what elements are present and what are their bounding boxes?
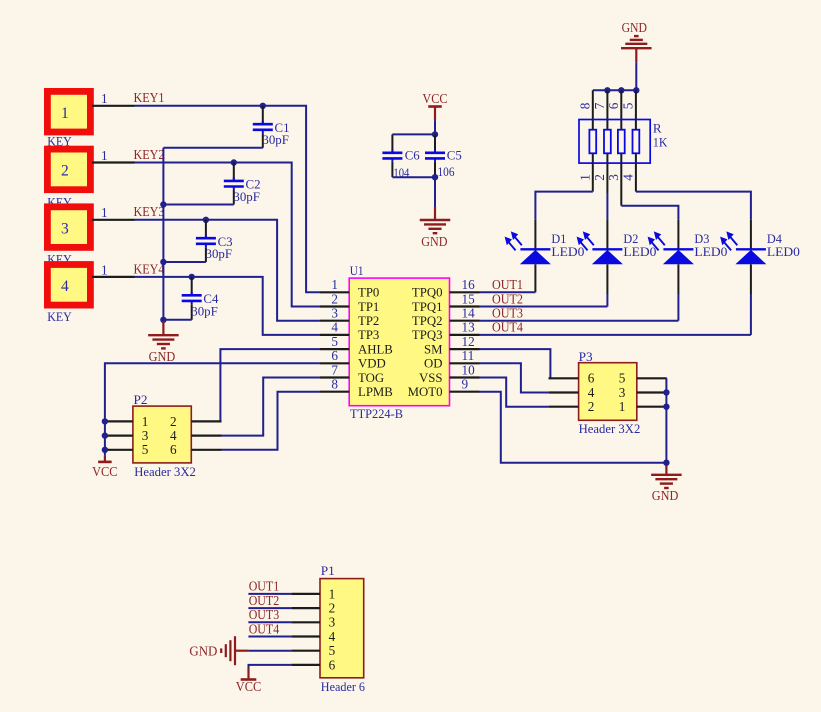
node P3 GND junction [663, 389, 669, 395]
power VCC (P2) [92, 456, 118, 479]
svg-text:TP0: TP0 [358, 286, 379, 300]
svg-text:5: 5 [620, 102, 635, 109]
wire C6 top branch [392, 133, 435, 135]
net label OUT2 (at U1) [492, 291, 523, 306]
svg-text:5: 5 [142, 442, 149, 457]
wire U1 AHLB pin5 to P2 pin2 [220, 349, 319, 421]
wire U1 TOG pin7 to P2 pin4 [222, 378, 320, 436]
net label OUT4 (P1) [249, 621, 280, 636]
svg-text:1: 1 [101, 205, 108, 220]
capacitor C6 104 [382, 134, 420, 180]
IC U1 TTP224-B [320, 263, 480, 421]
svg-text:GND: GND [189, 644, 217, 659]
wire net OUT2 (P1) [248, 607, 291, 609]
net label OUT1 (at U1) [492, 277, 523, 292]
capacitor C3 30pF [196, 220, 233, 262]
svg-text:OUT1: OUT1 [249, 579, 280, 594]
node R top junction [618, 87, 624, 93]
wire C3 bottom to GND chain [163, 261, 206, 263]
svg-text:3: 3 [619, 385, 626, 400]
svg-text:VCC: VCC [92, 464, 118, 479]
svg-text:1: 1 [101, 148, 108, 163]
svg-text:1: 1 [329, 586, 336, 601]
svg-text:KEY2: KEY2 [134, 147, 165, 162]
svg-text:TP3: TP3 [358, 328, 379, 342]
wire D1 to OUT1 [480, 264, 536, 292]
node R top junction [604, 87, 610, 93]
svg-text:GND: GND [622, 20, 647, 35]
svg-text:1: 1 [101, 262, 108, 277]
svg-text:10: 10 [462, 362, 476, 377]
svg-text:4: 4 [329, 629, 336, 644]
net label KEY3 [134, 204, 165, 219]
svg-text:VCC: VCC [422, 91, 447, 106]
svg-text:1: 1 [577, 174, 592, 181]
svg-text:3: 3 [331, 306, 338, 321]
svg-text:TP2: TP2 [358, 314, 379, 328]
connector P2 Header 3X2 [103, 392, 222, 479]
svg-text:GND: GND [149, 349, 176, 364]
wire C1 bottom to GND chain [163, 147, 262, 149]
svg-text:OUT4: OUT4 [249, 621, 280, 636]
capacitor C5 106 [425, 134, 462, 179]
wire U1 LPMB pin8 to P2 pin6 [222, 392, 320, 450]
svg-text:OUT3: OUT3 [249, 607, 280, 622]
svg-text:15: 15 [462, 291, 476, 306]
svg-text:TTP224-B: TTP224-B [350, 406, 403, 421]
svg-text:4: 4 [61, 278, 69, 295]
svg-text:12: 12 [462, 334, 475, 349]
power VCC (P1) [236, 668, 262, 694]
wire C6 bottom branch [392, 176, 435, 178]
svg-text:R: R [653, 121, 662, 136]
wire U1 SM pin12 to P3 pin6 [480, 349, 551, 378]
svg-text:30pF: 30pF [262, 132, 289, 147]
wire net KEY4 [135, 277, 320, 335]
node GND chain junction [160, 259, 166, 265]
svg-text:30pF: 30pF [206, 246, 233, 261]
svg-text:16: 16 [462, 277, 476, 292]
svg-text:TPQ3: TPQ3 [412, 328, 443, 342]
node KEY2 junction at C2 [231, 159, 237, 165]
wire net KEY3 [135, 220, 320, 321]
svg-text:2: 2 [331, 291, 338, 306]
svg-text:GND: GND [421, 234, 447, 249]
node KEY3 junction at C3 [203, 217, 209, 223]
node P2 VCC junction [102, 418, 108, 424]
svg-text:OUT1: OUT1 [492, 277, 523, 292]
svg-text:6: 6 [331, 348, 338, 363]
svg-text:Header 3X2: Header 3X2 [579, 421, 641, 436]
svg-text:5: 5 [619, 371, 626, 386]
node P3 GND junction [663, 404, 669, 410]
svg-text:4: 4 [588, 385, 595, 400]
svg-text:106: 106 [438, 164, 455, 179]
node P2 VCC junction [102, 432, 108, 438]
capacitor C1 30pF [253, 106, 290, 148]
svg-text:TPQ1: TPQ1 [412, 300, 443, 314]
wire to GND [434, 177, 436, 207]
LED D4 LED0 [720, 219, 800, 264]
wire VCC to caps [434, 120, 436, 134]
svg-text:OUT4: OUT4 [492, 320, 523, 335]
capacitor C2 30pF [224, 163, 261, 205]
node GND chain junction [160, 201, 166, 207]
ground symbol (key capacitors) [148, 321, 179, 364]
capacitor C4 30pF [182, 277, 219, 320]
wire C2 bottom to GND chain [163, 204, 233, 206]
svg-text:OUT2: OUT2 [249, 593, 280, 608]
wire U1 MOT0 pin9 to GND rail [480, 392, 667, 463]
svg-text:VDD: VDD [358, 357, 386, 371]
svg-text:30pF: 30pF [233, 189, 260, 204]
svg-text:8: 8 [331, 377, 338, 392]
connector P1 Header 6 [291, 563, 365, 694]
svg-text:2: 2 [329, 601, 336, 616]
svg-text:2: 2 [61, 163, 69, 180]
svg-text:LED0: LED0 [767, 244, 800, 259]
node GND chain junction [160, 317, 166, 323]
wire net KEY2 [135, 163, 320, 307]
net label OUT3 (P1) [249, 607, 280, 622]
svg-text:TPQ2: TPQ2 [412, 314, 443, 328]
svg-text:LED0: LED0 [694, 244, 727, 259]
wire P1 pin5 to GND [248, 650, 291, 652]
wire U1 VDD pin6 to VCC rail [105, 363, 320, 456]
svg-text:1: 1 [619, 399, 626, 414]
svg-text:1: 1 [61, 105, 69, 122]
svg-text:KEY: KEY [47, 310, 72, 324]
wire GND to resistor network [593, 62, 637, 90]
svg-text:3: 3 [142, 428, 149, 443]
svg-text:SM: SM [424, 342, 443, 356]
node P2 VCC junction [102, 447, 108, 453]
connector P3 Header 3X2 [549, 349, 667, 436]
svg-text:3: 3 [61, 220, 69, 237]
wire net OUT1 (P1) [248, 593, 291, 595]
LED D3 LED0 [648, 219, 728, 264]
net label OUT2 (P1) [249, 593, 280, 608]
svg-text:1: 1 [331, 277, 338, 292]
svg-text:P2: P2 [134, 392, 148, 407]
wire D3 to OUT3 [480, 264, 679, 320]
wire P1 pin6 to VCC [249, 665, 292, 669]
wire net OUT4 (P1) [248, 636, 291, 638]
svg-text:LED0: LED0 [551, 244, 584, 259]
svg-text:P3: P3 [579, 349, 593, 364]
svg-text:4: 4 [170, 428, 177, 443]
net label KEY2 [134, 147, 165, 162]
svg-text:KEY3: KEY3 [134, 204, 165, 219]
node R top junction [633, 87, 639, 93]
wire R pin1 to D1 [535, 163, 592, 219]
wire D4 to OUT4 [480, 264, 751, 335]
svg-text:4: 4 [331, 320, 338, 335]
svg-text:1: 1 [142, 414, 149, 429]
svg-text:LPMB: LPMB [358, 385, 393, 399]
key button S2 (KEY2) [47, 148, 134, 210]
svg-text:9: 9 [462, 377, 469, 392]
svg-text:TOG: TOG [358, 371, 384, 385]
node GND junction below C5 [432, 174, 438, 180]
power VCC (decoupling) [422, 91, 447, 120]
svg-text:11: 11 [462, 348, 475, 363]
svg-text:GND: GND [652, 488, 679, 503]
power GND (resistor network, inverted) [621, 20, 652, 62]
wire GND chain vertical [162, 148, 164, 326]
svg-text:AHLB: AHLB [358, 342, 393, 356]
wire net KEY1 [135, 106, 320, 292]
ground symbol (P1, rotated) [189, 636, 248, 665]
svg-text:LED0: LED0 [623, 244, 656, 259]
svg-text:3: 3 [329, 615, 336, 630]
wire U1 VSS pin10 to P3 pin2 [480, 378, 549, 407]
svg-text:VSS: VSS [419, 371, 442, 385]
wire net OUT3 (P1) [248, 621, 291, 623]
ground symbol (P3) [651, 466, 682, 503]
svg-text:4: 4 [620, 174, 635, 181]
svg-text:VCC: VCC [236, 679, 262, 694]
svg-text:1: 1 [101, 91, 108, 106]
svg-text:6: 6 [606, 102, 621, 109]
ground symbol (decoupling) [420, 207, 451, 249]
wire U1 OD pin11 to P3 pin4 [480, 363, 549, 392]
svg-text:TPQ0: TPQ0 [412, 286, 443, 300]
svg-text:P1: P1 [321, 563, 335, 578]
svg-text:2: 2 [170, 414, 177, 429]
svg-text:2: 2 [588, 399, 595, 414]
svg-text:MOT0: MOT0 [408, 385, 443, 399]
net label KEY4 [134, 261, 165, 276]
wire R pin3 to D3 [621, 163, 678, 219]
LED D1 LED0 [505, 219, 585, 264]
node P3 GND junction [663, 460, 669, 466]
svg-text:13: 13 [462, 320, 476, 335]
svg-text:OUT3: OUT3 [492, 306, 523, 321]
node VCC junction [432, 131, 438, 137]
node KEY4 junction at C4 [189, 274, 195, 280]
svg-text:Header 6: Header 6 [321, 679, 366, 694]
svg-text:OD: OD [424, 357, 442, 371]
svg-text:KEY1: KEY1 [134, 90, 165, 105]
svg-text:Header 3X2: Header 3X2 [134, 464, 196, 479]
wire D2 to OUT2 [480, 264, 608, 306]
svg-text:6: 6 [170, 442, 177, 457]
svg-text:5: 5 [331, 334, 338, 349]
wire R pin4 to D4 [636, 163, 751, 219]
svg-text:8: 8 [577, 102, 592, 109]
svg-text:6: 6 [588, 371, 595, 386]
svg-text:30pF: 30pF [191, 303, 218, 318]
wire R pin2 to D2 [606, 163, 608, 219]
key button S1 (KEY1) [47, 91, 134, 149]
wire C4 bottom to GND chain [163, 319, 191, 321]
svg-text:7: 7 [331, 362, 338, 377]
node KEY1 junction at C1 [260, 103, 266, 109]
svg-text:C6: C6 [405, 147, 420, 162]
svg-text:14: 14 [462, 306, 476, 321]
svg-text:U1: U1 [350, 263, 364, 278]
svg-text:5: 5 [329, 643, 336, 658]
svg-text:OUT2: OUT2 [492, 291, 523, 306]
svg-text:7: 7 [592, 102, 607, 109]
svg-text:2: 2 [592, 174, 607, 181]
net label OUT3 (at U1) [492, 306, 523, 321]
wire P3 right pins to GND [665, 378, 667, 468]
key button S4 (KEY4) [47, 262, 134, 324]
svg-text:1K: 1K [653, 134, 668, 149]
net label OUT4 (at U1) [492, 320, 523, 335]
net label KEY1 [134, 90, 165, 105]
key button S3 (KEY3) [47, 205, 134, 266]
LED D2 LED0 [577, 219, 657, 264]
svg-text:6: 6 [329, 657, 336, 672]
svg-text:TP1: TP1 [358, 300, 379, 314]
svg-text:C5: C5 [447, 147, 462, 162]
svg-text:KEY4: KEY4 [134, 261, 165, 276]
net label OUT1 (P1) [249, 579, 280, 594]
resistor network R 1K [577, 90, 668, 180]
